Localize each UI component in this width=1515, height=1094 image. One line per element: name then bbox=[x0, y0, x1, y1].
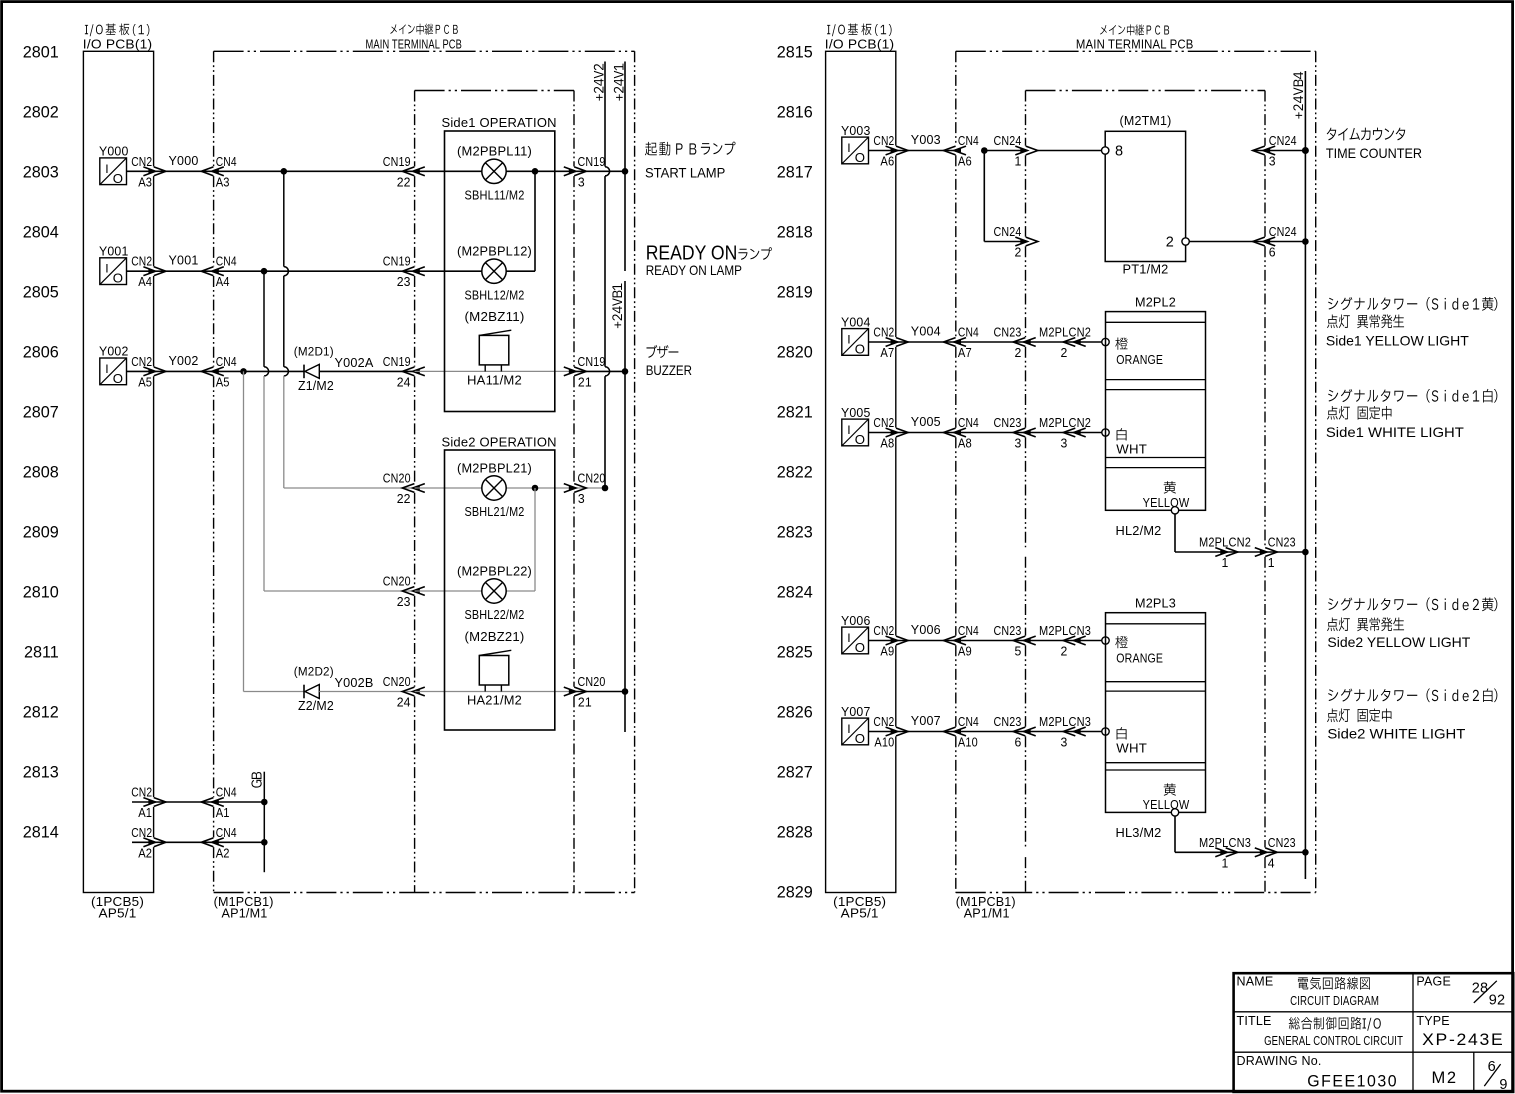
ground bus GB bbox=[263, 772, 265, 873]
svg-text:Y005: Y005 bbox=[841, 405, 871, 420]
wire buzzer HA21 row bbox=[415, 691, 574, 693]
svg-text:2817: 2817 bbox=[777, 163, 813, 181]
svg-text:TITLE: TITLE bbox=[1237, 1014, 1272, 1028]
svg-text:A6: A6 bbox=[880, 154, 894, 169]
wire into Side2 lamp22 bbox=[415, 590, 482, 592]
svg-text:2801: 2801 bbox=[23, 43, 59, 61]
svg-text:3: 3 bbox=[1061, 735, 1068, 750]
svg-text:GFEE1030: GFEE1030 bbox=[1307, 1072, 1398, 1090]
svg-text:2821: 2821 bbox=[777, 403, 813, 421]
Side1 OPERATION box bbox=[445, 131, 555, 412]
terminal Y005 lamp bbox=[1102, 429, 1109, 436]
svg-text:BUZZER: BUZZER bbox=[646, 362, 692, 378]
terminal 8 M2TM1 bbox=[1102, 147, 1109, 154]
svg-text:M2PLCN2: M2PLCN2 bbox=[1039, 415, 1091, 430]
wire lamp11 to bus bbox=[506, 170, 625, 172]
svg-text:21: 21 bbox=[578, 695, 592, 710]
svg-text:CN20: CN20 bbox=[578, 674, 606, 689]
svg-text:Y004: Y004 bbox=[841, 314, 871, 329]
svg-text:Y007: Y007 bbox=[841, 704, 871, 719]
label 白 WHT M2PL2 bbox=[1117, 428, 1127, 440]
svg-text:8: 8 bbox=[1115, 144, 1123, 160]
svg-text:Y004: Y004 bbox=[911, 324, 941, 339]
wire Y001 to CN19-23 bbox=[264, 270, 415, 272]
svg-text:2811: 2811 bbox=[24, 643, 59, 661]
svg-text:AP1/M1: AP1/M1 bbox=[222, 906, 268, 921]
svg-text:2804: 2804 bbox=[23, 223, 59, 241]
wire VX2 vertical bbox=[263, 271, 265, 367]
svg-text:CN19: CN19 bbox=[578, 354, 606, 369]
MAIN TERMINAL PCB box left bbox=[213, 51, 215, 166]
junction +24VB1 HA21 bbox=[622, 688, 629, 695]
svg-text:WHT: WHT bbox=[1116, 741, 1147, 756]
svg-text:M2PLCN2: M2PLCN2 bbox=[1039, 325, 1091, 340]
svg-text:I: I bbox=[105, 362, 108, 376]
svg-text:A5: A5 bbox=[138, 374, 152, 389]
wire to CN23-1 bbox=[1226, 551, 1266, 553]
svg-text:CN2: CN2 bbox=[873, 714, 894, 729]
hop VX2 over Y002 bbox=[264, 367, 269, 376]
svg-text:PT1/M2: PT1/M2 bbox=[1123, 262, 1169, 277]
svg-text:M2PLCN3: M2PLCN3 bbox=[1039, 623, 1091, 638]
svg-text:6: 6 bbox=[1269, 245, 1276, 260]
svg-text:2822: 2822 bbox=[777, 463, 813, 481]
title block bbox=[1234, 973, 1514, 1092]
label 橙 ORANGE M2PL3 bbox=[1115, 636, 1127, 648]
lamp M2PBPL21 bbox=[482, 476, 506, 500]
junction Y002/VX3 bbox=[240, 368, 247, 375]
wire to M2PLCN3-2 bbox=[1026, 640, 1076, 642]
svg-text:(M2PBPL22): (M2PBPL22) bbox=[457, 563, 532, 578]
svg-text:AP1/M1: AP1/M1 bbox=[964, 906, 1010, 921]
svg-text:2: 2 bbox=[1015, 345, 1022, 360]
svg-text:START LAMP: START LAMP bbox=[645, 165, 725, 181]
svg-text:23: 23 bbox=[397, 274, 411, 289]
svg-text:(M2PBPL21): (M2PBPL21) bbox=[457, 460, 532, 475]
svg-text:A10: A10 bbox=[958, 735, 978, 750]
hop VX1 over Y002 bbox=[284, 367, 289, 376]
row numbers 2815-2829 bbox=[777, 43, 813, 901]
svg-text:A1: A1 bbox=[216, 805, 230, 820]
svg-text:2823: 2823 bbox=[777, 523, 813, 541]
svg-text:O: O bbox=[855, 432, 865, 447]
svg-text:3: 3 bbox=[1061, 436, 1068, 451]
svg-text:CN23: CN23 bbox=[994, 714, 1022, 729]
connector CN2-A9 bbox=[891, 638, 897, 643]
svg-text:Y003: Y003 bbox=[911, 132, 941, 147]
svg-text:2: 2 bbox=[1061, 345, 1068, 360]
svg-text:CN23: CN23 bbox=[994, 325, 1022, 340]
svg-text:CN20: CN20 bbox=[383, 471, 411, 486]
svg-text:M2: M2 bbox=[1432, 1069, 1458, 1087]
svg-text:28: 28 bbox=[1472, 981, 1489, 997]
svg-text:CN20: CN20 bbox=[383, 574, 411, 589]
svg-text:READY ON LAMP: READY ON LAMP bbox=[646, 262, 742, 278]
annotation シグナルタワー Side1白 bbox=[1328, 389, 1497, 403]
label 黄 YELLOW M2PL3 bbox=[1164, 783, 1176, 795]
signal tower M2PL3 box bbox=[1106, 613, 1206, 813]
wire Y002 row bbox=[127, 370, 244, 372]
label I/O基板(1) right bbox=[827, 24, 891, 37]
svg-text:HL2/M2: HL2/M2 bbox=[1116, 523, 1162, 538]
svg-text:2813: 2813 bbox=[23, 763, 59, 781]
connector M2PLCN2-3 bbox=[1075, 430, 1081, 435]
I/O output Y000 bbox=[100, 158, 127, 186]
wire CN20-21 to bus +24VB1 bbox=[574, 691, 625, 693]
svg-text:Y000: Y000 bbox=[99, 144, 129, 159]
svg-text:ORANGE: ORANGE bbox=[1116, 651, 1163, 666]
svg-text:CN24: CN24 bbox=[1269, 224, 1297, 239]
svg-text:CN4: CN4 bbox=[216, 154, 237, 169]
svg-text:2826: 2826 bbox=[777, 703, 813, 721]
connector CN2-A2 bbox=[148, 840, 154, 845]
connector M2PLCN3-3 bbox=[1075, 729, 1081, 734]
junction Y000/VX1 bbox=[281, 168, 288, 175]
svg-text:AP5/1: AP5/1 bbox=[841, 906, 879, 921]
timer M2TM1 box bbox=[1105, 131, 1185, 261]
wire lamp21 to bus +24V2 bbox=[506, 487, 605, 489]
svg-text:2809: 2809 bbox=[23, 523, 59, 541]
svg-text:3: 3 bbox=[578, 491, 585, 506]
svg-text:I/O PCB(1): I/O PCB(1) bbox=[83, 36, 153, 51]
svg-text:A9: A9 bbox=[958, 644, 972, 659]
svg-text:Y006: Y006 bbox=[841, 613, 871, 628]
svg-text:2828: 2828 bbox=[777, 823, 813, 841]
svg-text:CIRCUIT DIAGRAM: CIRCUIT DIAGRAM bbox=[1290, 993, 1379, 1008]
svg-text:5: 5 bbox=[1015, 644, 1022, 659]
connector CN2-A10 bbox=[891, 729, 897, 734]
junction +24V2 lamp21 bbox=[602, 485, 609, 492]
svg-text:Y000: Y000 bbox=[169, 153, 199, 168]
wire CN24-6 to bus bbox=[1265, 241, 1305, 243]
I/O output Y006 bbox=[842, 627, 869, 655]
svg-text:A1: A1 bbox=[138, 805, 152, 820]
svg-text:(M2D2): (M2D2) bbox=[294, 664, 334, 678]
I/O output Y005 bbox=[842, 419, 869, 447]
wire Y001 row bbox=[127, 270, 265, 272]
connector CN23-3 bbox=[1025, 430, 1031, 435]
svg-text:CN4: CN4 bbox=[958, 623, 979, 638]
wire into Side2 lamp21 bbox=[415, 487, 482, 489]
svg-text:3: 3 bbox=[1015, 436, 1022, 451]
annotation シグナルタワー Side2白 bbox=[1328, 688, 1497, 702]
junction +24VB4 timer bbox=[1302, 238, 1309, 245]
connector CN20-24 bbox=[414, 689, 420, 694]
label メイン中継PCB left bbox=[390, 24, 457, 35]
junction Y001/VX2 bbox=[261, 268, 268, 275]
svg-text:HA11/M2: HA11/M2 bbox=[467, 373, 522, 388]
connector CN4-A10 bbox=[955, 729, 961, 734]
junction +24VB1 buzzer bbox=[622, 368, 629, 375]
svg-text:2825: 2825 bbox=[777, 643, 813, 661]
svg-text:M2PL3: M2PL3 bbox=[1135, 596, 1176, 611]
svg-text:A5: A5 bbox=[216, 374, 230, 389]
terminal 2 M2TM1 bbox=[1182, 238, 1189, 245]
svg-text:Y002: Y002 bbox=[169, 353, 199, 368]
svg-text:(M2BZ11): (M2BZ11) bbox=[465, 309, 525, 324]
svg-text:CN2: CN2 bbox=[131, 254, 152, 269]
I/O output Y003 bbox=[842, 137, 869, 165]
svg-text:YELLOW: YELLOW bbox=[1143, 797, 1190, 812]
wire buzzer HA11 row bbox=[415, 370, 574, 372]
wire diode Z2 to CN20-24 bbox=[319, 691, 414, 693]
svg-text:I: I bbox=[847, 423, 850, 437]
svg-text:SBHL21/M2: SBHL21/M2 bbox=[465, 504, 525, 519]
junction +24V1 Y000 bbox=[622, 168, 629, 175]
wire Y007 row bbox=[869, 731, 956, 733]
svg-text:SBHL12/M2: SBHL12/M2 bbox=[465, 287, 525, 302]
connector CN2-A3 bbox=[148, 169, 154, 174]
connector CN2-A7 bbox=[891, 339, 897, 344]
svg-text:Y003: Y003 bbox=[841, 123, 871, 138]
terminal yellow M2PL3 bbox=[1171, 809, 1178, 816]
junction lamp11/VXL bbox=[532, 168, 539, 175]
svg-text:CN23: CN23 bbox=[1268, 835, 1296, 850]
label I/O基板(1) left bbox=[85, 24, 149, 37]
svg-text:XP-243E: XP-243E bbox=[1422, 1031, 1504, 1049]
svg-text:CN20: CN20 bbox=[578, 471, 606, 486]
connector CN4-A4 bbox=[213, 269, 219, 274]
svg-text:Y006: Y006 bbox=[911, 622, 941, 637]
svg-text:2: 2 bbox=[1061, 644, 1068, 659]
power bus +24VB4 bbox=[1304, 71, 1306, 879]
wire Y004 row bbox=[869, 341, 956, 343]
svg-text:Y001: Y001 bbox=[169, 253, 199, 268]
svg-text:A4: A4 bbox=[216, 274, 230, 289]
label メイン中継PCB right bbox=[1100, 24, 1169, 35]
svg-text:O: O bbox=[113, 271, 123, 286]
svg-text:CN19: CN19 bbox=[383, 254, 411, 269]
svg-text:A2: A2 bbox=[216, 845, 230, 860]
wire to M2PLCN2-2 bbox=[1026, 341, 1076, 343]
wire to M2PLCN2-3 bbox=[1026, 432, 1076, 434]
svg-text:CN19: CN19 bbox=[383, 154, 411, 169]
wire Y003 to CN24-1 bbox=[984, 150, 1025, 152]
svg-text:2812: 2812 bbox=[23, 703, 59, 721]
junction lamp21/VXL bbox=[532, 485, 539, 492]
svg-text:O: O bbox=[855, 731, 865, 746]
svg-text:(M2PBPL12): (M2PBPL12) bbox=[457, 244, 532, 259]
svg-text:6: 6 bbox=[1015, 735, 1022, 750]
connector CN20-21 bbox=[569, 689, 575, 694]
hop over +24V2 at Y000 bbox=[605, 167, 610, 176]
svg-text:2803: 2803 bbox=[23, 163, 59, 181]
svg-text:A8: A8 bbox=[880, 436, 894, 451]
svg-text:CN2: CN2 bbox=[873, 133, 894, 148]
svg-text:3: 3 bbox=[1269, 154, 1276, 169]
svg-text:CN2: CN2 bbox=[873, 325, 894, 340]
wire A1 mid bbox=[154, 801, 265, 803]
connector CN19-24 bbox=[414, 369, 420, 374]
svg-text:WHT: WHT bbox=[1116, 442, 1147, 457]
Side operation dashed enclosure left bbox=[414, 91, 416, 167]
power bus +24VB1 bbox=[624, 281, 626, 732]
svg-text:(M2TM1): (M2TM1) bbox=[1120, 113, 1172, 128]
svg-text:CN4: CN4 bbox=[958, 714, 979, 729]
svg-text:21: 21 bbox=[578, 374, 592, 389]
svg-text:CN4: CN4 bbox=[216, 825, 237, 840]
svg-text:I: I bbox=[105, 262, 108, 276]
svg-text:2: 2 bbox=[1166, 235, 1174, 251]
connector CN2-A6 bbox=[891, 148, 897, 153]
wire RVX to CN24-2 bbox=[984, 241, 1025, 243]
svg-text:Side2 OPERATION: Side2 OPERATION bbox=[442, 434, 557, 449]
svg-text:CN4: CN4 bbox=[216, 254, 237, 269]
svg-text:CN2: CN2 bbox=[131, 825, 152, 840]
wire Y007 to CN23-6 bbox=[956, 731, 1026, 733]
svg-text:Y002A: Y002A bbox=[335, 355, 374, 370]
wire yellow drop M2PLCN3 bbox=[1174, 816, 1176, 852]
svg-text:22: 22 bbox=[397, 174, 411, 189]
svg-text:TYPE: TYPE bbox=[1416, 1014, 1449, 1028]
svg-text:CN24: CN24 bbox=[994, 224, 1022, 239]
label 橙 ORANGE M2PL2 bbox=[1115, 337, 1127, 349]
connector CN20-23 bbox=[414, 588, 420, 593]
connector CN4-A3 bbox=[213, 169, 219, 174]
svg-text:2819: 2819 bbox=[777, 283, 813, 301]
svg-text:2818: 2818 bbox=[777, 223, 813, 241]
wire Y002 to diode Z1 bbox=[244, 370, 305, 372]
svg-text:Z2/M2: Z2/M2 bbox=[298, 698, 334, 713]
wire Y002B to diode Z2 bbox=[244, 691, 305, 693]
svg-text:O: O bbox=[855, 342, 865, 357]
row numbers 2801-2814 bbox=[23, 43, 59, 841]
svg-text:2829: 2829 bbox=[777, 883, 813, 901]
svg-text:CN24: CN24 bbox=[1269, 133, 1297, 148]
label 黄 YELLOW M2PL2 bbox=[1164, 481, 1176, 493]
connector CN20-22 bbox=[414, 485, 420, 490]
svg-text:CN4: CN4 bbox=[216, 785, 237, 800]
annotation シグナルタワー Side1黄 bbox=[1328, 297, 1497, 311]
svg-text:Y007: Y007 bbox=[911, 713, 941, 728]
wire A2 mid bbox=[154, 841, 265, 843]
svg-text:24: 24 bbox=[397, 374, 411, 389]
connector CN19-23 bbox=[414, 269, 420, 274]
power bus +24V2 bbox=[604, 62, 606, 167]
svg-text:Side2 WHITE LIGHT: Side2 WHITE LIGHT bbox=[1327, 726, 1465, 742]
svg-text:2810: 2810 bbox=[23, 583, 59, 601]
svg-text:CN19: CN19 bbox=[383, 354, 411, 369]
connector CN23-4 bbox=[1260, 850, 1266, 855]
junction +24VB4 CN23-1 bbox=[1302, 549, 1309, 556]
svg-text:CN2: CN2 bbox=[131, 354, 152, 369]
svg-text:MAIN TERMINAL PCB: MAIN TERMINAL PCB bbox=[1076, 36, 1194, 51]
wire M2PLCN2-3 to lamp terminal bbox=[1076, 432, 1102, 434]
connector CN4-A8 bbox=[955, 430, 961, 435]
svg-text:2802: 2802 bbox=[23, 103, 59, 121]
buzzer M2BZ21 bbox=[479, 650, 511, 691]
connector M2PLCN3-1 bbox=[1220, 850, 1226, 855]
diode Z1/M2 bbox=[304, 364, 319, 378]
svg-text:CN2: CN2 bbox=[131, 785, 152, 800]
connector M2PLCN3-2 bbox=[1075, 638, 1081, 643]
label 総合制御回路I/O bbox=[1289, 1017, 1381, 1031]
svg-text:2806: 2806 bbox=[23, 343, 59, 361]
svg-text:CN2: CN2 bbox=[873, 415, 894, 430]
connector M2PLCN2-1 bbox=[1220, 549, 1226, 554]
connector CN24-2 bbox=[1020, 239, 1026, 244]
wire into Side1 lamp12 bbox=[415, 270, 482, 272]
svg-text:2816: 2816 bbox=[777, 103, 813, 121]
connector CN4-A7 bbox=[955, 339, 961, 344]
I/O output Y004 bbox=[842, 329, 869, 357]
wire M2PLCN3-3 to lamp terminal bbox=[1076, 731, 1102, 733]
connector CN24-1 bbox=[1020, 148, 1026, 153]
svg-text:(M2PBPL11): (M2PBPL11) bbox=[457, 144, 532, 159]
annotation 起動PBランプ START LAMP bbox=[645, 142, 736, 156]
wire CN19-21 to bus bbox=[574, 370, 625, 372]
svg-text:AP5/1: AP5/1 bbox=[99, 906, 137, 921]
svg-text:SBHL22/M2: SBHL22/M2 bbox=[465, 607, 525, 622]
svg-text:2824: 2824 bbox=[777, 583, 813, 601]
svg-text:4: 4 bbox=[1268, 855, 1275, 870]
terminal Y004 lamp bbox=[1102, 338, 1109, 345]
signal tower M2PL2 box bbox=[1106, 312, 1206, 511]
wire yellow drop M2PLCN2 bbox=[1174, 514, 1176, 552]
svg-text:CN24: CN24 bbox=[994, 133, 1022, 148]
svg-text:(M2BZ21): (M2BZ21) bbox=[465, 629, 525, 644]
svg-text:HL3/M2: HL3/M2 bbox=[1116, 825, 1162, 840]
wire Y000 to CN19-22 bbox=[284, 170, 415, 172]
wire VX3 vertical bbox=[243, 371, 245, 691]
wire timer pin2 to CN24-6 bbox=[1189, 241, 1265, 243]
I/O PCB(1) box right bbox=[826, 51, 896, 892]
svg-text:GENERAL CONTROL CIRCUIT: GENERAL CONTROL CIRCUIT bbox=[1264, 1033, 1403, 1048]
wire Y005 row bbox=[869, 432, 956, 434]
svg-text:2805: 2805 bbox=[23, 283, 59, 301]
svg-text:I/O PCB(1): I/O PCB(1) bbox=[825, 36, 895, 51]
svg-text:2: 2 bbox=[1015, 245, 1022, 260]
svg-text:A2: A2 bbox=[138, 845, 152, 860]
svg-text:O: O bbox=[113, 171, 123, 186]
svg-text:A10: A10 bbox=[874, 735, 894, 750]
svg-text:A9: A9 bbox=[880, 644, 894, 659]
wire CN24-1 to timer pin 8 bbox=[1038, 150, 1102, 152]
wire RVX vertical bbox=[983, 151, 985, 242]
hop over +24V2 at buzzer bbox=[605, 367, 610, 376]
connector CN23-5 bbox=[1025, 638, 1031, 643]
svg-text:YELLOW: YELLOW bbox=[1143, 495, 1190, 510]
junction +24VB4 CN23-4 bbox=[1302, 849, 1309, 856]
I/O output Y001 bbox=[100, 258, 127, 286]
svg-text:1: 1 bbox=[1268, 555, 1275, 570]
Side2 OPERATION box bbox=[445, 450, 555, 730]
svg-text:M2PLCN3: M2PLCN3 bbox=[1039, 714, 1091, 729]
svg-text:CN23: CN23 bbox=[994, 415, 1022, 430]
svg-text:DRAWING No.: DRAWING No. bbox=[1237, 1054, 1322, 1068]
wire GB row A1 bbox=[132, 801, 154, 803]
svg-text:O: O bbox=[855, 640, 865, 655]
svg-text:2808: 2808 bbox=[23, 463, 59, 481]
wire M2PLCN3-2 to lamp terminal bbox=[1076, 640, 1102, 642]
wire Y004 to CN23-2 bbox=[956, 341, 1026, 343]
wire CN23-1 to bus bbox=[1265, 551, 1305, 553]
connector CN4-A5 bbox=[213, 369, 219, 374]
svg-text:Side1 OPERATION: Side1 OPERATION bbox=[442, 115, 557, 130]
svg-text:2827: 2827 bbox=[777, 763, 813, 781]
wire CN23-4 to bus bbox=[1265, 851, 1305, 853]
hop VX1 over Y001 bbox=[284, 267, 289, 276]
annotation タイムカウンタ TIME COUNTER bbox=[1327, 128, 1405, 141]
svg-text:I: I bbox=[847, 631, 850, 645]
svg-text:CN23: CN23 bbox=[994, 623, 1022, 638]
connector M2PLCN2-2 bbox=[1075, 339, 1081, 344]
connector CN2-A1 bbox=[148, 799, 154, 804]
svg-text:1: 1 bbox=[1015, 154, 1022, 169]
wire Y000 row bbox=[127, 170, 284, 172]
svg-text:CN19: CN19 bbox=[578, 154, 606, 169]
svg-text:Y002B: Y002B bbox=[335, 675, 374, 690]
